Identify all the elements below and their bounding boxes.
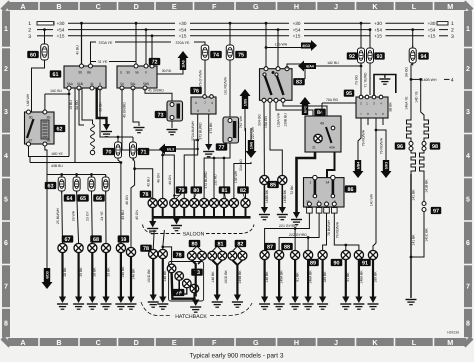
svg-text:28 BK: 28 BK	[63, 267, 67, 277]
svg-text:54: 54	[120, 82, 124, 86]
svg-text:372A BU/WH: 372A BU/WH	[191, 120, 195, 141]
svg-text:189 BK: 189 BK	[323, 271, 327, 283]
lamp group 67	[58, 243, 67, 252]
wire 148 BK	[120, 253, 122, 297]
wire +30 drop to 72	[135, 23, 137, 62]
svg-text:40 BU: 40 BU	[75, 45, 79, 55]
SALOON label and dashed bracket	[143, 225, 255, 238]
wire 372 BU/RD branch	[194, 140, 198, 199]
svg-text:43 BU: 43 BU	[121, 210, 125, 220]
fuse 92	[347, 52, 358, 60]
svg-text:146A YE: 146A YE	[405, 96, 409, 110]
svg-text:95: 95	[346, 91, 352, 97]
svg-text:28 BK: 28 BK	[93, 267, 97, 277]
svg-text:96: 96	[397, 144, 403, 150]
svg-text:42 BU: 42 BU	[146, 177, 150, 187]
svg-text:146 BK: 146 BK	[131, 268, 135, 280]
svg-text:141C BK: 141C BK	[425, 227, 429, 241]
wire 141C BK from connector 97	[411, 212, 424, 258]
connector 98 pins	[422, 142, 426, 146]
svg-text:3: 3	[451, 34, 454, 40]
svg-text:2: 2	[466, 66, 470, 73]
heater element coil	[82, 89, 93, 125]
svg-text:A: A	[20, 338, 25, 347]
wire 54 drop	[122, 89, 163, 151]
relay 72 label	[149, 58, 161, 66]
wire +30 drop to switch 83	[265, 23, 267, 66]
svg-text:63: 63	[48, 183, 54, 189]
svg-text:132 RD: 132 RD	[214, 174, 218, 186]
wire 72 BK thick ground from hazard	[297, 152, 316, 212]
hatchback pair feed 80	[192, 241, 197, 251]
wire 28 BK to ground	[61, 253, 63, 297]
svg-text:4: 4	[466, 153, 470, 160]
arrow 1/D5	[240, 89, 251, 109]
svg-text:372 BU/RD: 372 BU/RD	[198, 122, 202, 140]
arrow 1/A5	[178, 51, 189, 70]
label 81 saloon	[219, 186, 231, 194]
lamp group 68	[88, 243, 97, 252]
svg-text:6/A4: 6/A4	[306, 64, 314, 68]
wire 44 GN to saloon lamp 1	[135, 169, 153, 199]
wire +54 tap to fuse 94	[412, 30, 414, 47]
border frame left band	[2, 11, 10, 337]
wire saloon feed 10	[245, 128, 247, 199]
wire 151 RD/WH fuse 75 to unit 77	[229, 60, 231, 117]
saloon label callouts	[150, 196, 154, 200]
svg-text:+30: +30	[293, 21, 301, 26]
svg-text:148B BK: 148B BK	[265, 189, 269, 203]
arrow 6/A4	[298, 61, 316, 72]
wire 45 GN fuse 71	[133, 158, 135, 169]
label 91	[359, 259, 371, 267]
svg-text:K: K	[372, 338, 378, 347]
svg-text:81: 81	[218, 241, 224, 247]
svg-text:46 GN: 46 GN	[125, 195, 129, 205]
svg-text:1: 1	[466, 26, 470, 33]
svg-text:1/H5: 1/H5	[249, 142, 253, 150]
fuse 65	[88, 175, 95, 194]
svg-text:+30: +30	[179, 21, 187, 26]
fuse 74	[210, 51, 222, 59]
HATCHBACK label with dashed brackets	[141, 302, 252, 320]
relay 62	[25, 110, 55, 146]
wire +54 drop to switch 83	[277, 30, 279, 67]
svg-text:70: 70	[106, 149, 112, 155]
svg-text:L: L	[412, 338, 417, 347]
svg-text:29 BK: 29 BK	[79, 267, 83, 277]
svg-text:78: 78	[176, 252, 182, 258]
fuse 71	[130, 140, 137, 161]
svg-text:334 OG: 334 OG	[258, 114, 262, 126]
svg-text:25 BU/WH: 25 BU/WH	[56, 207, 60, 224]
svg-text:64: 64	[67, 196, 73, 202]
svg-text:K: K	[372, 2, 378, 11]
svg-text:+30: +30	[374, 21, 382, 26]
wire element to connector 97	[423, 172, 425, 201]
cluster lamp 3	[183, 279, 192, 288]
svg-text:1/A5: 1/A5	[181, 60, 185, 68]
svg-text:85: 85	[47, 116, 51, 120]
svg-text:6/B4: 6/B4	[356, 162, 360, 170]
wire 146D RO	[162, 259, 164, 297]
wire +54 drop to 72	[145, 30, 147, 64]
svg-text:61: 61	[53, 72, 59, 78]
svg-text:6: 6	[4, 240, 8, 247]
svg-text:45 GN/RD: 45 GN/RD	[123, 102, 127, 118]
wire 29 BK to ground	[77, 253, 79, 297]
wire switch 83 to hazard switch b	[283, 102, 327, 116]
svg-text:C: C	[96, 2, 101, 11]
label 79 cluster	[173, 289, 185, 297]
ground lamp 85a	[259, 207, 270, 220]
ignition switch 61	[64, 64, 106, 90]
heated rear window element left	[407, 118, 412, 141]
svg-text:+15: +15	[179, 34, 187, 39]
svg-text:+54: +54	[374, 27, 382, 32]
fuse 63	[45, 182, 57, 190]
svg-text:M: M	[447, 338, 453, 347]
fuse 66	[102, 175, 109, 194]
svg-text:H28139: H28139	[447, 331, 459, 335]
svg-text:24 YE: 24 YE	[100, 211, 104, 221]
svg-text:81 BK: 81 BK	[296, 272, 300, 282]
hatchback pair lamps 81	[208, 251, 217, 260]
svg-text:+15: +15	[428, 34, 436, 39]
svg-text:M: M	[447, 2, 453, 11]
hatchback pair feed 82	[232, 241, 237, 251]
svg-text:83: 83	[296, 80, 302, 86]
ground 72 BK arrow	[291, 212, 302, 225]
arrow 6/B4 down	[353, 160, 364, 178]
wire 71 YE/RD fuse 93 to connector 95	[369, 63, 371, 95]
svg-text:78: 78	[143, 246, 149, 252]
svg-text:97: 97	[433, 208, 439, 214]
connector 86	[304, 175, 345, 213]
svg-text:8: 8	[197, 109, 199, 113]
svg-text:+30: +30	[57, 21, 65, 26]
rear lamp 89	[318, 250, 327, 259]
wire 73 OG fuse 92 to connector 95	[360, 63, 362, 95]
connector 96 pins	[409, 142, 413, 146]
label 78 hatchback	[140, 245, 152, 253]
svg-text:182 BU: 182 BU	[327, 61, 339, 65]
light switch 83	[260, 67, 293, 103]
svg-text:8: 8	[4, 320, 8, 327]
svg-text:334 OG: 334 OG	[239, 159, 243, 171]
svg-text:141B BK: 141B BK	[425, 179, 429, 193]
svg-text:139B BU: 139B BU	[283, 113, 287, 127]
ground 58L	[134, 128, 145, 133]
lamp 85 pair	[260, 175, 269, 184]
svg-text:86: 86	[87, 71, 91, 75]
svg-text:76: 76	[193, 88, 199, 94]
svg-text:2: 2	[28, 28, 31, 34]
ground lamp 68b	[101, 297, 112, 310]
svg-text:77: 77	[219, 145, 225, 151]
ground saloon mid	[171, 218, 182, 231]
svg-text:79 RO/WH: 79 RO/WH	[361, 129, 365, 146]
lamp 68 label	[90, 235, 102, 243]
wire terminal 56B drop	[79, 89, 84, 126]
cluster lamp 1	[167, 264, 176, 273]
lamp 69a	[116, 243, 125, 252]
connector 97 label	[431, 207, 442, 215]
svg-text:190D BK: 190D BK	[224, 269, 228, 283]
wire relay 62 pin 87 long run to arrow	[29, 146, 31, 157]
svg-text:5: 5	[466, 197, 470, 204]
connector 76	[191, 95, 216, 114]
connector 96 label	[395, 142, 406, 150]
svg-text:B: B	[56, 338, 61, 347]
lamp 69 label	[118, 235, 129, 243]
svg-text:148 BK: 148 BK	[121, 266, 125, 278]
wire 140B WH to frame 4	[411, 78, 414, 80]
svg-text:78 BU/WH: 78 BU/WH	[327, 219, 331, 236]
svg-text:+15: +15	[374, 34, 382, 39]
arrow 1/H5 down	[246, 140, 257, 158]
hazard switch 84 label	[314, 109, 326, 117]
wire 31 YE	[91, 61, 97, 63]
ground cluster	[190, 300, 201, 313]
fuse 93	[367, 46, 374, 66]
wire feed to cluster	[163, 247, 172, 264]
svg-text:86: 86	[348, 187, 354, 193]
wire saloon feed 6-8 from unit 77	[204, 143, 230, 199]
ground below switch 61	[101, 124, 112, 137]
wire 182 BU	[316, 65, 361, 67]
svg-text:41 GN/RD: 41 GN/RD	[148, 89, 164, 93]
svg-text:370A YE: 370A YE	[99, 41, 114, 45]
unit 77	[223, 117, 239, 143]
svg-text:74: 74	[213, 52, 219, 58]
svg-text:4/G3: 4/G3	[302, 44, 310, 48]
lamp 85 label	[267, 181, 279, 189]
wire 78 BU/WH	[323, 213, 327, 250]
svg-text:222 GY/RD: 222 GY/RD	[289, 233, 307, 237]
wire 221 branch	[294, 229, 296, 251]
hatchback lamps pair left	[149, 249, 158, 258]
svg-text:3A OG: 3A OG	[405, 67, 409, 78]
svg-text:2: 2	[4, 66, 8, 73]
connector 86 label	[345, 185, 357, 193]
wire 29 BK b	[105, 253, 107, 297]
switch 61 label	[50, 70, 62, 78]
arrow 4/G3	[301, 40, 317, 51]
svg-text:19A GN: 19A GN	[264, 116, 268, 128]
svg-text:+30: +30	[428, 21, 436, 26]
ground lamp 67b	[73, 297, 84, 310]
connector 98 label	[430, 142, 441, 150]
wire +30 drop to fuse 92	[360, 23, 362, 47]
svg-text:141 BK: 141 BK	[412, 234, 416, 246]
wire saloon feed 3	[163, 155, 175, 199]
svg-text:43B BU: 43B BU	[51, 164, 63, 168]
svg-text:149B BK: 149B BK	[238, 270, 242, 284]
svg-text:30: 30	[78, 71, 82, 75]
svg-text:148 WH: 148 WH	[26, 93, 30, 106]
svg-text:6: 6	[466, 240, 470, 247]
label 89	[307, 259, 319, 267]
svg-text:D: D	[134, 338, 139, 347]
svg-text:30: 30	[126, 71, 130, 75]
svg-text:31 YE: 31 YE	[98, 60, 108, 64]
svg-text:49A: 49A	[329, 146, 336, 150]
wire connector 95 pin 5 to arrow	[376, 118, 386, 160]
rear lamp row 87-88	[260, 250, 269, 259]
svg-text:SALOON: SALOON	[183, 231, 205, 237]
wire relay 62 pin 86 to 18D YE / 43B BU	[45, 146, 47, 175]
svg-text:8: 8	[466, 320, 470, 327]
connector 95 bottom stubs	[367, 118, 369, 125]
svg-text:46 GN: 46 GN	[156, 173, 160, 183]
wire hatchback feed b	[163, 230, 165, 249]
svg-text:Typical early 900 models - par: Typical early 900 models - part 3	[190, 353, 284, 360]
wire +30 drop to 61 pin 30	[81, 23, 83, 64]
svg-text:1: 1	[4, 26, 8, 33]
ground lamp 68a	[87, 297, 98, 310]
svg-text:2: 2	[451, 28, 454, 34]
label 82 saloon	[237, 186, 249, 194]
wire 221 GY/RD	[265, 213, 310, 250]
wire 25 BU/WH	[61, 191, 64, 243]
wire 370A YE from pin 86	[91, 42, 97, 64]
fuse 75	[229, 23, 231, 44]
svg-text:58R: 58R	[143, 82, 150, 86]
svg-text:60: 60	[30, 52, 36, 58]
border frame bottom band	[8, 338, 466, 347]
svg-text:19 BU: 19 BU	[69, 100, 73, 110]
relay 72	[117, 64, 157, 90]
ground lamp 69a	[115, 297, 126, 310]
svg-text:+54: +54	[428, 27, 436, 32]
svg-text:4: 4	[211, 101, 213, 105]
wire +54 tap to fuse 60	[44, 30, 46, 43]
svg-text:45 GN: 45 GN	[135, 210, 139, 220]
hatchback pair feed 81	[212, 241, 217, 251]
wire feed bus for fuses 63-66	[47, 174, 106, 176]
svg-text:L: L	[412, 2, 417, 11]
ground lamp 85b	[277, 207, 288, 220]
svg-text:220 WH: 220 WH	[251, 126, 255, 139]
svg-text:E: E	[172, 2, 177, 11]
hatchback lamp 69b	[126, 247, 135, 256]
svg-text:94: 94	[421, 54, 427, 60]
ground hatchback pair 81	[212, 295, 223, 308]
svg-text:14D YE: 14D YE	[414, 90, 418, 102]
svg-text:1: 1	[451, 21, 454, 27]
svg-text:68: 68	[93, 237, 99, 243]
wire 41 GN/RD to unit 73	[145, 89, 172, 102]
cluster lamp 4	[190, 284, 199, 293]
cluster thick ground bus	[172, 273, 196, 299]
svg-text:73 OG: 73 OG	[355, 75, 359, 85]
wire +15 drop to 72	[151, 36, 153, 64]
wire 148B BK	[263, 185, 265, 207]
fuse 94	[409, 46, 416, 66]
label 78 saloon	[140, 191, 152, 199]
wire hazard 49A to connector 86	[327, 152, 335, 178]
wires rear lamps to grounds	[265, 260, 378, 297]
ground 141 BK	[406, 300, 417, 305]
svg-text:5: 5	[208, 109, 210, 113]
arrow 6/L3	[159, 144, 176, 155]
svg-text:90: 90	[334, 260, 340, 266]
svg-text:135 WH: 135 WH	[275, 43, 288, 47]
svg-text:49: 49	[320, 122, 324, 126]
svg-text:148A BK: 148A BK	[359, 270, 363, 284]
wire 222 GY/RD	[279, 213, 319, 250]
svg-text:88: 88	[284, 244, 290, 250]
unit 73 label	[155, 111, 167, 119]
svg-text:78: 78	[143, 192, 149, 198]
svg-text:58L: 58L	[130, 82, 136, 86]
svg-text:93: 93	[377, 54, 383, 60]
wire 141 BK long	[410, 174, 412, 298]
svg-text:5/K3: 5/K3	[384, 162, 388, 170]
svg-text:79 RO/WH: 79 RO/WH	[335, 221, 339, 238]
svg-text:6/L3: 6/L3	[167, 147, 174, 151]
fuse 64	[73, 175, 80, 194]
svg-text:E: E	[172, 338, 177, 347]
ground 69b	[126, 297, 137, 310]
svg-text:7: 7	[4, 284, 8, 291]
svg-text:H: H	[294, 2, 299, 11]
svg-text:56A: 56A	[67, 82, 74, 86]
wire connector 95 pin to ground	[374, 75, 396, 96]
svg-text:56B: 56B	[77, 82, 83, 86]
svg-text:149A BK: 149A BK	[280, 270, 284, 284]
ground saloon left	[152, 217, 154, 221]
ground hatchback a	[148, 295, 159, 308]
wire 146 BK	[130, 257, 132, 297]
svg-text:73: 73	[158, 112, 164, 118]
svg-text:19C BU: 19C BU	[50, 89, 62, 93]
svg-text:372 BU/RD: 372 BU/RD	[204, 171, 208, 189]
svg-text:80: 80	[192, 241, 198, 247]
ground hatchback pair 82	[232, 295, 243, 308]
svg-text:67: 67	[65, 237, 71, 243]
svg-text:G: G	[253, 338, 259, 347]
wire 148D RO	[152, 259, 154, 295]
wire 373 BK from 76 to ground	[208, 114, 210, 144]
hazard switch 84	[305, 116, 341, 152]
label 87	[264, 243, 276, 251]
wire 36 BK thick ground wire	[97, 89, 107, 125]
wire 146A YE fuse 94 to element	[411, 63, 413, 118]
saloon lamp row	[148, 198, 250, 207]
svg-text:82: 82	[240, 188, 246, 194]
svg-text:44 GN: 44 GN	[168, 175, 172, 185]
wire 149B BK	[281, 185, 283, 207]
heated rear window element left lower	[411, 151, 416, 175]
wire hatchback branch from fuse 71	[131, 169, 135, 248]
arrow 6/D3 from relay 62	[46, 175, 48, 269]
svg-text:86: 86	[47, 139, 51, 143]
svg-text:+15: +15	[293, 34, 301, 39]
rear lamps 90 91	[341, 250, 350, 259]
svg-text:HATCHBACK: HATCHBACK	[175, 314, 207, 320]
svg-text:148 BK: 148 BK	[265, 271, 269, 283]
svg-text:G: G	[253, 2, 259, 11]
hatchback pair lamps 80	[188, 251, 197, 260]
wire 43 BU fuse 70 to lamp	[118, 158, 121, 243]
border frame right band	[464, 11, 472, 337]
svg-text:+15: +15	[57, 34, 65, 39]
wire fuse 60 to relay 62 pins	[32, 60, 45, 112]
svg-text:98: 98	[432, 144, 438, 150]
label 79 saloon	[176, 186, 188, 194]
